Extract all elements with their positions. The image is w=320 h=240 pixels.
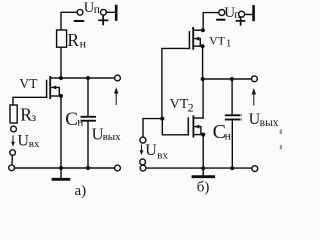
gate lead (13, 97, 47, 105)
terminal Uп minus (a) (77, 9, 83, 15)
gate bar (187, 118, 189, 135)
node: source junction a (59, 94, 63, 98)
battery plate (a) (115, 6, 118, 20)
label Сн (a) (65, 109, 83, 130)
node: capacitor tap a (86, 76, 90, 80)
node: rail-VT2 junction b (201, 166, 205, 170)
svg-text:С: С (65, 109, 78, 130)
wire: supply top rail b (terminal to bend, down to VT1 drain) (203, 13, 219, 30)
wire: VT2 source to rail (202, 135, 204, 169)
terminal: output a (115, 75, 121, 81)
label VT1 (209, 33, 231, 49)
bottom plate (82, 120, 96, 122)
wire: terminal to battery (b) (245, 13, 253, 15)
wire: VT1 source to output node (202, 46, 204, 79)
terminal: input bottom b (140, 159, 146, 165)
bottom plate (226, 119, 239, 121)
transistor VT (a) (13, 77, 63, 105)
resistor Rн (57, 30, 67, 47)
label Uп (b) (224, 5, 240, 21)
svg-text:н: н (225, 130, 231, 142)
wire: output rail a (61, 77, 115, 79)
ground symbol a (53, 168, 69, 179)
drain stub (194, 29, 203, 31)
node: rail-capacitor junction b (230, 166, 234, 170)
wire: ground rail a (15, 167, 115, 169)
wire: bottom plate to rail (231, 120, 233, 168)
capacitor Сн (b) (226, 79, 239, 168)
gate lead VT1 (162, 48, 190, 118)
transistor VT1 (162, 28, 205, 119)
top plate (82, 116, 96, 118)
node: rail-capacitor junction a (86, 166, 90, 170)
arrow: input voltage b (140, 145, 144, 155)
svg-text:вых: вых (103, 131, 122, 143)
substrate stub with arrow (51, 87, 59, 95)
wire: terminal to battery (a) (106, 11, 115, 13)
wire: input to rail a (11, 155, 13, 164)
top plate (226, 114, 239, 116)
svg-text:б): б) (197, 180, 210, 196)
node: output junction b (201, 77, 205, 81)
wire: source to rail a (60, 96, 62, 168)
substrate stub with arrow (194, 127, 201, 134)
wire: tap to top plate (231, 79, 233, 114)
svg-text:1: 1 (226, 39, 231, 50)
node: rail-source junction a (59, 166, 63, 170)
svg-text:2: 2 (188, 100, 194, 114)
scan artifact: right edge specks (280, 129, 282, 149)
node: source junction VT2 (201, 133, 205, 137)
svg-text:VT: VT (170, 97, 189, 112)
node: capacitor tap b (230, 77, 234, 81)
svg-text:вх: вх (29, 138, 40, 150)
label Сн (b) (213, 121, 231, 143)
svg-text:вых: вых (260, 117, 279, 129)
gate lead VT2 (162, 119, 188, 135)
label VT2 (170, 97, 194, 115)
label Uвх (a) (17, 132, 39, 150)
plus sign (b) (237, 17, 245, 25)
svg-text:R: R (67, 30, 79, 50)
terminal: input top b (140, 137, 146, 143)
svg-text:U: U (145, 142, 157, 159)
label Rз (20, 105, 36, 125)
svg-text:U: U (17, 132, 29, 149)
node: gates junction b (160, 117, 164, 121)
channel (49, 77, 51, 98)
resistor Rз (10, 105, 17, 123)
scan artifact: colon mark right of circuit b (240, 114, 242, 120)
wire: bottom plate to rail (87, 122, 89, 168)
wire: tap to top plate (87, 78, 89, 116)
label Rн (67, 30, 86, 50)
label Uвых (a) (92, 125, 122, 144)
ground symbol b (193, 168, 214, 177)
gate bar (188, 32, 190, 49)
source stub (194, 45, 203, 47)
svg-text:VT: VT (209, 33, 226, 47)
drain stub (51, 77, 61, 79)
minus sign (b) (217, 19, 224, 21)
wire: Rн to drain node (60, 47, 62, 78)
drain stub (top) (194, 117, 203, 119)
terminal Uп plus (b) (239, 11, 245, 17)
node: drain/output junction a (59, 76, 63, 80)
svg-text:н: н (77, 117, 83, 129)
wire: output rail b (203, 78, 252, 80)
channel (192, 116, 194, 136)
arrow: output voltage b (252, 88, 256, 105)
terminal Uп plus (a) (101, 9, 107, 15)
wire: junction to input terminal b (143, 119, 162, 138)
channel (192, 28, 194, 49)
minus sign (a) (75, 20, 83, 22)
terminal: rail right end b (252, 166, 258, 172)
transistor VT2 (162, 116, 205, 137)
label Uп (a) (84, 0, 100, 16)
terminal: rail left end a (9, 165, 15, 171)
svg-text:вх: вх (157, 150, 168, 162)
terminal: rail left end b (140, 165, 146, 171)
capacitor Сн (a) (82, 78, 96, 168)
arrow: output voltage a (114, 87, 118, 104)
node: source junction VT1 (201, 44, 205, 48)
terminal Uп minus (b) (219, 10, 225, 16)
terminal: output b (252, 76, 258, 82)
terminal: input top a (11, 126, 17, 132)
wire: ground rail b (146, 167, 252, 169)
wire: supply top rail a (from left terminal to bend, down to Rн) (61, 12, 77, 30)
svg-text:н: н (80, 36, 87, 50)
arrow: input voltage a (11, 136, 15, 147)
label Uвх (b) (145, 142, 168, 161)
terminal: rail right end a (115, 165, 121, 171)
source stub (51, 95, 61, 97)
svg-text:VT: VT (19, 76, 38, 91)
source stub (bottom) (194, 134, 203, 136)
terminal: input bottom a (10, 150, 16, 156)
svg-text:п: п (94, 4, 100, 16)
svg-text:з: з (31, 110, 36, 124)
gate bar (46, 81, 48, 98)
plus sign (a) (99, 16, 108, 24)
svg-text:а): а) (75, 183, 87, 199)
wire: output node down to VT2 drain (202, 79, 204, 118)
node: drain junction VT1 (201, 28, 205, 32)
label Uвых (b) (249, 111, 279, 129)
battery plate (b) (252, 6, 255, 20)
substrate stub with arrow (194, 39, 200, 46)
